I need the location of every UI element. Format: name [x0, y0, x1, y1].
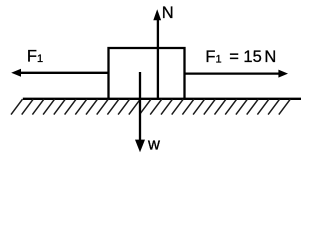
label w [147, 136, 160, 154]
svg-text:w: w [147, 136, 160, 154]
reaction force F1 arrow pointing right [185, 70, 289, 78]
label N [162, 4, 174, 22]
ground hatching [11, 99, 290, 114]
block (box on ground) [109, 48, 185, 100]
applied force F1 arrow pointing left [11, 69, 108, 77]
ground line [23, 98, 301, 100]
svg-text:N: N [162, 4, 174, 22]
normal force N arrow (vertical line through block up from ground) [153, 9, 161, 99]
label F1 (left) [27, 48, 43, 66]
label F1 = 15 N [205, 48, 276, 66]
weight w arrow (from block centre down through ground) [135, 72, 145, 152]
